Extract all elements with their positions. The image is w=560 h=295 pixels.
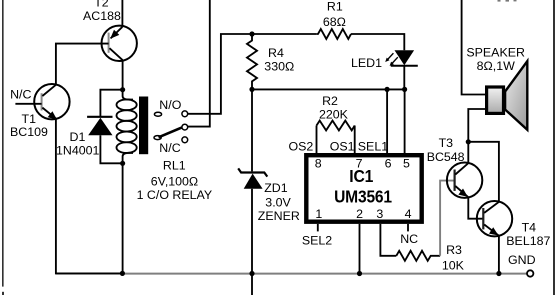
resistor R1 68 ohm zigzag	[316, 29, 351, 39]
svg-text:2: 2	[356, 207, 363, 221]
relay RL1 coil loop 1	[117, 99, 137, 110]
node ground rail pin2 junction dot	[357, 271, 362, 276]
node speaker T3 T4 junction dot	[466, 139, 471, 144]
zener ZD1 top lead	[251, 89, 253, 171]
svg-text:3: 3	[376, 207, 383, 221]
speaker LS1 cone	[505, 61, 527, 130]
transistor T4 collector diagonal	[484, 202, 499, 213]
ground rail gray segment	[122, 273, 527, 275]
svg-text:BEL187: BEL187	[506, 234, 550, 248]
top edge cropped text fragments	[498, 0, 501, 2]
transistor T2 emitter arrowhead	[110, 30, 119, 39]
svg-text:R2: R2	[322, 94, 338, 108]
svg-text:4: 4	[405, 207, 412, 221]
relay RL1 coil loop 4	[117, 132, 137, 143]
svg-text:T3: T3	[439, 136, 454, 150]
wire T1 base stub N/C	[15, 103, 41, 105]
relay common contact circle	[182, 124, 188, 130]
transistor T1 BC109 circle	[34, 84, 69, 119]
op IC1 UM3561 body box	[306, 155, 421, 222]
diode D1 triangle	[88, 118, 112, 136]
diode D1 cathode bar	[87, 116, 112, 118]
svg-text:N/O: N/O	[159, 98, 181, 112]
wire T2 collector down to node	[122, 60, 124, 89]
relay RL1 coil loop 3	[117, 121, 137, 132]
transistor T1 emitter arrowhead	[48, 111, 57, 119]
svg-text:UM3561: UM3561	[334, 186, 392, 206]
LED1 cathode bar	[391, 65, 418, 67]
LED1 light arrow 2	[391, 57, 397, 64]
relay armature pivot ellipse lower	[154, 136, 161, 140]
relay N/O contact circle	[182, 111, 188, 117]
transistor T3 emitter diagonal	[455, 186, 468, 197]
relay contact pivot ellipse upper	[154, 112, 161, 116]
relay RL1 coil loop 5	[117, 142, 137, 153]
svg-text:D1: D1	[70, 130, 86, 144]
wire LED1 cathode to rail	[403, 66, 405, 90]
svg-text:R3: R3	[446, 243, 462, 257]
relay RL1 core bar	[139, 97, 148, 155]
svg-text:10K: 10K	[442, 259, 465, 273]
wire coil bottom to ground rail	[122, 163, 124, 273]
wire T3 collector up to speaker node	[467, 142, 469, 163]
svg-text:1N4001: 1N4001	[56, 144, 100, 158]
transistor T3 BC548 circle	[447, 163, 482, 198]
ground rail black segment	[56, 272, 123, 274]
node ground rail ZD1 junction dot	[249, 271, 254, 276]
relay armature arm	[159, 127, 183, 137]
wire T1 emitter down to ground rail	[56, 119, 123, 274]
zener ZD1 cathode bar with ticks	[238, 168, 267, 176]
wire IC1 pin5 lead	[404, 89, 406, 153]
node R4 bottom junction dot	[249, 87, 254, 92]
zener ZD1 triangle	[244, 174, 263, 189]
svg-text:68Ω: 68Ω	[323, 15, 346, 29]
wire R1 to LED1 anode	[351, 34, 404, 50]
node pin5 LED rail junction dot	[402, 87, 407, 92]
transistor T2 AC188 PNP circle	[102, 26, 137, 61]
speaker LS1 box	[487, 87, 504, 113]
transistor T3 emitter arrowhead	[458, 189, 467, 197]
wire IC1 pin2 lead to ground	[359, 224, 361, 274]
resistor R3 10K zigzag	[396, 251, 440, 261]
transistor T2 base bar	[108, 33, 110, 53]
svg-text:1 C/O RELAY: 1 C/O RELAY	[137, 188, 213, 202]
svg-text:R4: R4	[268, 46, 284, 60]
wire IC1 pin1 stub SEL2	[317, 224, 319, 232]
svg-text:6: 6	[385, 157, 392, 171]
svg-text:RL1: RL1	[163, 158, 186, 172]
svg-text:AC188: AC188	[83, 9, 121, 23]
svg-text:N/C: N/C	[159, 141, 180, 155]
node ground rail T4 junction dot	[496, 271, 501, 276]
svg-text:OS2: OS2	[289, 140, 314, 154]
svg-text:R1: R1	[327, 0, 343, 13]
svg-text:1: 1	[315, 207, 322, 221]
relay RL1 coil top lead	[123, 90, 133, 100]
transistor T4 base bar	[482, 208, 484, 229]
transistor T4 BEL187 circle	[477, 201, 512, 236]
LED1 triangle	[395, 50, 415, 65]
wire T4 emitter to ground rail	[498, 236, 500, 274]
svg-text:SEL1: SEL1	[358, 140, 388, 154]
svg-text:3.0V: 3.0V	[265, 195, 291, 209]
wire T2 base to T1 collector	[56, 44, 109, 85]
svg-text:330Ω: 330Ω	[264, 59, 294, 73]
wire T3 emitter to T4 base	[468, 197, 483, 219]
transistor T2 collector diagonal	[110, 48, 123, 60]
diode D1 bottom lead	[100, 135, 122, 163]
LED1 light arrow 1	[387, 53, 393, 60]
diode D1 1N4001 top lead	[100, 90, 122, 117]
transistor T1 emitter diagonal	[42, 108, 56, 119]
svg-text:7: 7	[356, 157, 363, 171]
svg-text:5: 5	[403, 157, 410, 171]
resistor R2 220K zigzag	[317, 121, 355, 131]
svg-text:T1: T1	[22, 112, 37, 126]
wire IC1 pin4 stub NC	[407, 224, 409, 232]
svg-text:8: 8	[315, 157, 322, 171]
svg-text:220K: 220K	[319, 107, 349, 121]
border frame right	[553, 0, 555, 295]
node D1 anode / coil bottom junction dot	[120, 161, 125, 166]
svg-text:LED1: LED1	[351, 56, 382, 70]
svg-text:SEL2: SEL2	[302, 234, 332, 248]
svg-text:SPEAKER: SPEAKER	[466, 46, 525, 60]
transistor T4 emitter diagonal	[484, 225, 499, 236]
wire IC1 pin3 lead to R3	[380, 224, 396, 256]
wire IC1 pin6 lead	[386, 89, 388, 153]
wire speaker terminal 2 to node	[468, 109, 485, 142]
wire mid rail R4 to pin5	[252, 88, 405, 90]
node pin6 rail junction dot	[385, 87, 390, 92]
svg-text:ZD1: ZD1	[264, 181, 288, 195]
svg-text:BC548: BC548	[427, 150, 465, 164]
svg-text:BC109: BC109	[10, 125, 48, 139]
svg-text:ZENER: ZENER	[258, 209, 300, 223]
transistor T3 collector diagonal	[455, 163, 468, 174]
ground GND terminal circle	[527, 270, 533, 276]
border frame left	[2, 0, 3, 287]
relay RL1 coil bottom lead	[123, 153, 133, 163]
wire IC1 pin8 lead	[316, 126, 318, 154]
wire supply left vertical to T2 emitter top	[121, 0, 123, 26]
wire R3 to T3 base gray	[440, 181, 454, 256]
relay RL1 coil loop 2	[117, 110, 137, 121]
transistor T4 emitter arrowhead	[489, 227, 499, 235]
svg-text:N/C: N/C	[10, 88, 31, 102]
transistor T1 base bar	[41, 93, 43, 110]
svg-text:NC: NC	[400, 232, 418, 246]
resistor R4 330 ohm zigzag	[247, 34, 257, 89]
transistor T3 base bar	[454, 170, 456, 191]
wire speaker terminal 1 from top supply	[462, 0, 485, 95]
transistor T1 collector diagonal	[42, 85, 56, 96]
svg-text:8Ω,1W: 8Ω,1W	[477, 59, 515, 73]
node R4 top junction dot	[249, 31, 254, 36]
svg-text:GND: GND	[508, 253, 536, 267]
node ground rail T1 junction dot	[120, 271, 125, 276]
relay N/C contact circle	[182, 137, 188, 143]
svg-text:T4: T4	[522, 220, 537, 234]
svg-text:OS1: OS1	[330, 140, 355, 154]
wire IC1 pin7 lead	[354, 126, 356, 154]
wire relay N/O to R1 feed	[188, 34, 317, 114]
zener ZD1 bottom lead to bottom edge	[251, 189, 253, 295]
wire relay common to top supply	[188, 0, 210, 127]
svg-text:T2: T2	[94, 0, 109, 10]
node T2 collector / D1 / relay coil junction dot	[120, 87, 125, 92]
wire T4 collector up to speaker node	[468, 142, 499, 202]
svg-text:6V,100Ω: 6V,100Ω	[151, 175, 198, 189]
transistor T2 emitter diagonal	[111, 27, 123, 39]
